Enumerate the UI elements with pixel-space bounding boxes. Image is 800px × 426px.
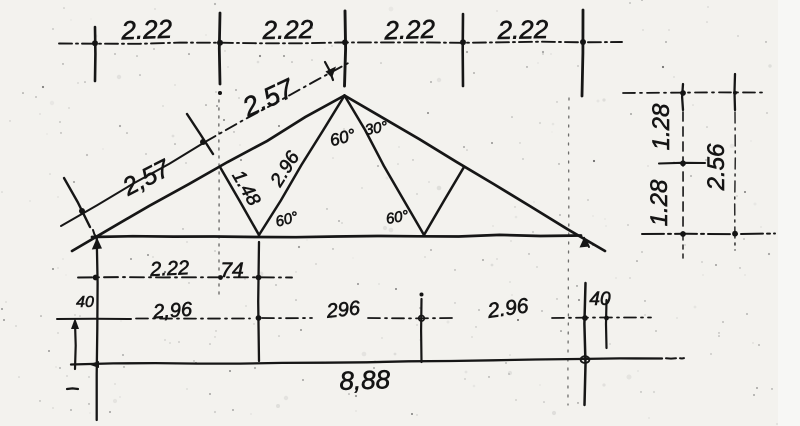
svg-text:8,88: 8,88 bbox=[339, 364, 391, 396]
svg-text:2.22: 2.22 bbox=[261, 14, 314, 45]
svg-text:2.56: 2.56 bbox=[703, 143, 730, 191]
svg-text:40: 40 bbox=[589, 289, 611, 310]
svg-text:2.22: 2.22 bbox=[496, 14, 549, 45]
svg-text:2.22: 2.22 bbox=[120, 14, 173, 46]
svg-text:2.22: 2.22 bbox=[383, 14, 436, 46]
svg-text:2,96: 2,96 bbox=[151, 299, 193, 324]
svg-text:40: 40 bbox=[76, 294, 94, 311]
svg-text:296: 296 bbox=[325, 297, 362, 323]
svg-text:1.28: 1.28 bbox=[648, 103, 675, 150]
svg-text:2.22: 2.22 bbox=[149, 257, 190, 281]
svg-text:1.28: 1.28 bbox=[646, 179, 673, 226]
svg-text:74: 74 bbox=[220, 259, 243, 282]
